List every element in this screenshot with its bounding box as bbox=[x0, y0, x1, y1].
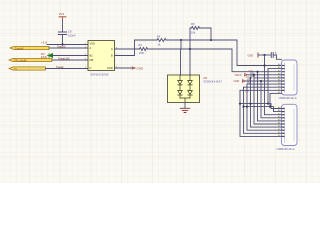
port Tx bbox=[9, 67, 46, 71]
wire V2 to ESD pin 1 bbox=[180, 40, 183, 75]
wire line1 left segment bbox=[135, 39, 158, 41]
power port VBUS arrow bbox=[245, 74, 248, 77]
junction line1 at V2 bbox=[180, 39, 182, 41]
junction link row 1 left bbox=[239, 103, 241, 105]
bus vertical 4 bbox=[251, 78, 282, 127]
junction link row 1 at bus9 bbox=[267, 103, 269, 105]
svg-text:22R: 22R bbox=[139, 51, 144, 55]
svg-text:B: B bbox=[111, 54, 113, 58]
wire power to capacitor bbox=[62, 21, 64, 32]
svg-text:5: 5 bbox=[85, 66, 86, 68]
svg-text:SN74LVC2G66: SN74LVC2G66 bbox=[90, 73, 109, 77]
wire J1 row B6 bbox=[244, 86, 282, 88]
connector J2 body bbox=[282, 104, 298, 145]
svg-text:R5: R5 bbox=[191, 22, 195, 26]
resistor R5 bbox=[192, 27, 200, 30]
svg-text:10k: 10k bbox=[191, 30, 196, 34]
wire +1.8 rail to U1 pin 1 bbox=[47, 44, 88, 46]
svg-text:A: A bbox=[90, 46, 92, 50]
bus vertical 5 bbox=[254, 75, 282, 124]
svg-text:TouchX: TouchX bbox=[57, 44, 66, 48]
wire R5 right down to line1 bbox=[200, 28, 211, 40]
wire ESD to ground bbox=[184, 103, 186, 109]
svg-text:R3: R3 bbox=[139, 43, 143, 47]
wire link row 2 bbox=[244, 107, 282, 112]
svg-text:3V3: 3V3 bbox=[59, 12, 65, 16]
bus vertical 1 bbox=[240, 90, 282, 136]
bus vertical 7 bbox=[261, 81, 282, 118]
junction row A1 bbox=[263, 64, 265, 66]
svg-text:GND: GND bbox=[234, 79, 240, 83]
junction row A7 bbox=[256, 71, 258, 73]
port TPx_SudD bbox=[9, 58, 52, 62]
connector J1 pin numbers bbox=[278, 63, 281, 94]
ESD internal bottom wire bbox=[180, 98, 190, 103]
wire shield row bbox=[258, 54, 271, 56]
svg-text:GND: GND bbox=[137, 66, 145, 70]
capacitor C16 bbox=[251, 73, 253, 77]
svg-text:C16: C16 bbox=[249, 70, 254, 73]
wire U1 pin A to R3 bbox=[115, 48, 140, 50]
wire capacitor to +1.8 rail bbox=[62, 35, 64, 45]
junction link row 2 left bbox=[242, 106, 244, 108]
svg-text:R4: R4 bbox=[157, 35, 161, 39]
ground symbol bbox=[180, 108, 189, 112]
bus vertical 8 shield bbox=[265, 55, 282, 115]
svg-text:TouchX: TouchX bbox=[15, 46, 24, 50]
junction row A5 bbox=[253, 74, 255, 76]
svg-text:D5: D5 bbox=[204, 76, 208, 80]
wire R5 left bbox=[190, 27, 192, 29]
wire port TPx_SudD to U1 bbox=[52, 59, 88, 61]
svg-text:USB4105-GF-A: USB4105-GF-A bbox=[277, 147, 295, 151]
power port GND2 arrow bbox=[242, 80, 245, 83]
wire line1 right segment bbox=[166, 39, 237, 41]
junction V1 on line2 bbox=[189, 48, 191, 50]
wire port TouchX to U1 pin A bbox=[49, 47, 88, 49]
wire line1 to CN1 pin row1 bbox=[237, 40, 282, 66]
junction link row 2 at bus10 bbox=[269, 106, 271, 108]
bus vertical 6 bbox=[258, 72, 282, 121]
connector J2 pin numbers bbox=[278, 106, 281, 137]
ESD array D5 body bbox=[168, 75, 200, 103]
svg-text:ESD5V3L4-8UT2: ESD5V3L4-8UT2 bbox=[204, 81, 223, 84]
op-amp U1 body bbox=[88, 41, 115, 71]
svg-text:VBUS: VBUS bbox=[235, 73, 242, 77]
connector J1 pin pads bbox=[282, 65, 285, 91]
junction capacitor on +1.8 rail bbox=[61, 43, 63, 45]
svg-text:100nF: 100nF bbox=[68, 33, 76, 37]
wire R3 to corner line2 bbox=[148, 48, 233, 50]
resistor R3 bbox=[140, 48, 148, 51]
svg-text:D: D bbox=[90, 66, 92, 70]
svg-text:2: 2 bbox=[85, 46, 86, 48]
wire J1 row A8 bbox=[254, 77, 282, 79]
svg-text:Tweak: Tweak bbox=[56, 65, 64, 69]
svg-text:1: 1 bbox=[85, 43, 86, 45]
svg-text:B2: B2 bbox=[90, 54, 94, 58]
capacitor C17 bbox=[248, 79, 250, 83]
junction row A8 bbox=[249, 77, 251, 79]
bus vertical 3 bbox=[247, 84, 282, 130]
U1 pin numbers left bbox=[85, 43, 86, 69]
wire J1 row B7 bbox=[240, 89, 282, 91]
wire line2 to CN1 pin row3 bbox=[232, 49, 282, 72]
bus vertical 10 bbox=[269, 93, 271, 106]
connector J2 pin pads bbox=[282, 108, 285, 137]
capacitor C15 bbox=[271, 53, 273, 58]
ESD diode b bbox=[188, 75, 193, 98]
svg-text:A: A bbox=[111, 47, 113, 51]
svg-text:TPx_SudD: TPx_SudD bbox=[14, 58, 27, 62]
junction line1 at R5 bbox=[210, 39, 212, 41]
wire port Tx to U1 pin D bbox=[46, 68, 89, 70]
wire C15 to J1 shield pin bbox=[273, 55, 281, 59]
svg-text:GND: GND bbox=[107, 66, 113, 70]
bus vertical 9 bbox=[267, 69, 269, 104]
ESD diode a bbox=[178, 75, 183, 98]
junction link row 2 right bbox=[246, 106, 248, 108]
wire VBUS row bbox=[248, 74, 282, 76]
svg-text:Tweak B0: Tweak B0 bbox=[58, 56, 70, 60]
svg-text:USB4105-GF-A: USB4105-GF-A bbox=[279, 96, 297, 100]
power port GND arrow bbox=[132, 67, 135, 69]
bus vertical 2 bbox=[244, 87, 282, 133]
svg-text:+1.8: +1.8 bbox=[41, 41, 47, 45]
svg-text:VDD: VDD bbox=[90, 42, 96, 46]
svg-text:4: 4 bbox=[85, 58, 86, 60]
wire J1 row B5 bbox=[270, 92, 282, 94]
resistor R4 bbox=[157, 39, 166, 42]
junction row B1 bbox=[260, 80, 262, 82]
svg-text:GND: GND bbox=[248, 54, 254, 58]
junction link row 1 right bbox=[249, 103, 251, 105]
wire diode D2 to U1 pin B2 bbox=[53, 55, 89, 57]
junction shield bbox=[263, 54, 265, 56]
wire link row 1 bbox=[240, 104, 282, 109]
wire U1 pin B up to line1 bbox=[115, 40, 135, 56]
connector J1 body bbox=[282, 60, 298, 95]
sheet background bbox=[0, 0, 320, 183]
wire J1 row B4 bbox=[247, 83, 282, 85]
wire GND2 row bbox=[246, 80, 282, 82]
svg-text:C8: C8 bbox=[68, 29, 72, 33]
wire J1 row A6 stub bbox=[268, 68, 282, 70]
wire U1 GND pin to GND port bbox=[115, 67, 133, 69]
diode D2 bbox=[48, 54, 53, 58]
svg-text:3: 3 bbox=[85, 54, 86, 56]
power port 3V3 bbox=[59, 17, 66, 21]
power port GND bar shield bbox=[257, 53, 259, 57]
U1 pin numbers right bbox=[116, 47, 117, 68]
port TouchX bbox=[10, 46, 49, 50]
capacitor C8 bbox=[58, 32, 66, 35]
wire V1 to ESD pin 2 bbox=[189, 28, 191, 75]
svg-text:DB: DB bbox=[90, 58, 94, 62]
